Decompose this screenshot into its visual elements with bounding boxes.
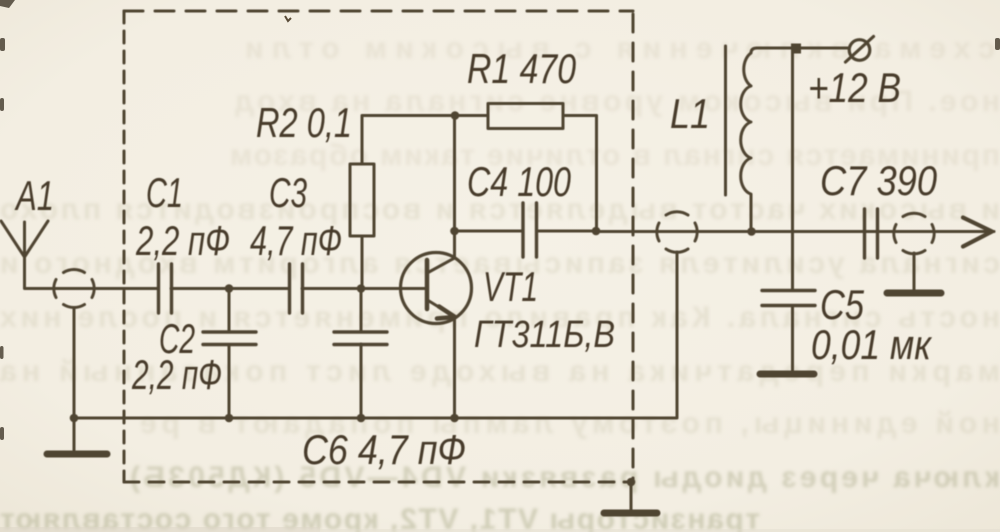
node: bus junctions xyxy=(70,414,79,423)
shield box dashed left edge xyxy=(123,11,126,482)
ground (antenna side) xyxy=(47,418,107,454)
capacitor C7 xyxy=(865,209,878,258)
capacitor C4 xyxy=(455,203,597,257)
ground (output feedthrough) xyxy=(887,290,941,297)
svg-text:С6 4,7 пФ: С6 4,7 пФ xyxy=(302,426,466,473)
small pen tick below top dashed line xyxy=(285,16,291,21)
capacitor C3 xyxy=(290,264,303,313)
wire C1 to C3 xyxy=(171,287,289,290)
wire output feedthrough shell to ground xyxy=(913,253,916,290)
ground (shield box) xyxy=(604,482,657,513)
wire output line to feedthrough xyxy=(596,230,994,233)
svg-text:ГТ311Б,В: ГТ311Б,В xyxy=(474,314,615,356)
resistor R2 xyxy=(350,116,455,289)
svg-text:A1: A1 xyxy=(14,172,54,219)
ground (C5) xyxy=(760,371,814,378)
svg-text:VT1: VT1 xyxy=(483,263,538,310)
wire antenna to C1 xyxy=(25,287,158,290)
node: collector/C4 junction xyxy=(450,227,459,236)
svg-text:2,2 пФ: 2,2 пФ xyxy=(135,217,230,264)
svg-text:L1: L1 xyxy=(670,90,710,137)
svg-text:0,01 мк: 0,01 мк xyxy=(811,321,933,368)
inductor L1 core line xyxy=(724,46,727,195)
shield box dashed right edge xyxy=(632,14,635,482)
svg-text:R1 470: R1 470 xyxy=(467,45,577,92)
svg-text:C1: C1 xyxy=(146,169,183,216)
svg-text:R2 0,1: R2 0,1 xyxy=(256,99,352,146)
feedthrough capacitor XS3 (output) xyxy=(894,213,934,254)
capacitor C1 xyxy=(159,264,172,313)
wire emitter to ground bus xyxy=(453,318,456,418)
svg-text:C4 100: C4 100 xyxy=(467,158,571,205)
node: L1 / output junction xyxy=(747,227,756,236)
feedthrough capacitor XS1 (input) xyxy=(54,270,94,308)
capacitor C2 (shunt) xyxy=(203,289,256,419)
node: square solder junction xyxy=(791,44,801,54)
svg-text:C7 390: C7 390 xyxy=(820,157,938,204)
node: R1 bottom / output junction xyxy=(592,227,601,236)
inductor L1 winding xyxy=(741,48,757,231)
node: R2/R1 top junction xyxy=(451,111,460,120)
output arrow xyxy=(963,218,992,247)
wire C3 to transistor base xyxy=(302,287,427,290)
node: junction C2 tap xyxy=(225,284,234,293)
capacitor C5 xyxy=(762,291,815,372)
svg-text:C3: C3 xyxy=(269,169,307,216)
svg-text:2,2 пФ: 2,2 пФ xyxy=(131,351,222,398)
antenna A1 symbol xyxy=(1,221,48,288)
svg-text:ключа через диоды развязки VD4: ключа через диоды развязки VD4—VD5 (КД50… xyxy=(130,461,1000,494)
wire collector vertical xyxy=(453,116,456,259)
resistor R1 xyxy=(455,104,597,232)
svg-text:4,7 пФ: 4,7 пФ xyxy=(250,217,342,264)
shield box dashed top edge xyxy=(124,10,633,13)
svg-text:+12 В: +12 В xyxy=(808,64,901,111)
wire +12V down to C5 (crosses output, no dot) xyxy=(791,54,794,291)
node: base junction xyxy=(357,284,366,293)
terminal +12 V (circle with slash) xyxy=(846,37,874,63)
capacitor C6 (base to ground) xyxy=(334,289,387,419)
ground bus wire xyxy=(74,252,677,418)
wire +12V feed xyxy=(757,47,849,50)
wire feedthrough shell to ground bus xyxy=(73,308,76,418)
transistor VT1 xyxy=(401,253,472,324)
node: shield ground junction on dashed wall xyxy=(627,478,636,487)
shield box dashed bottom edge xyxy=(124,481,633,484)
feedthrough capacitor XS2 (output of shield) xyxy=(657,212,697,253)
